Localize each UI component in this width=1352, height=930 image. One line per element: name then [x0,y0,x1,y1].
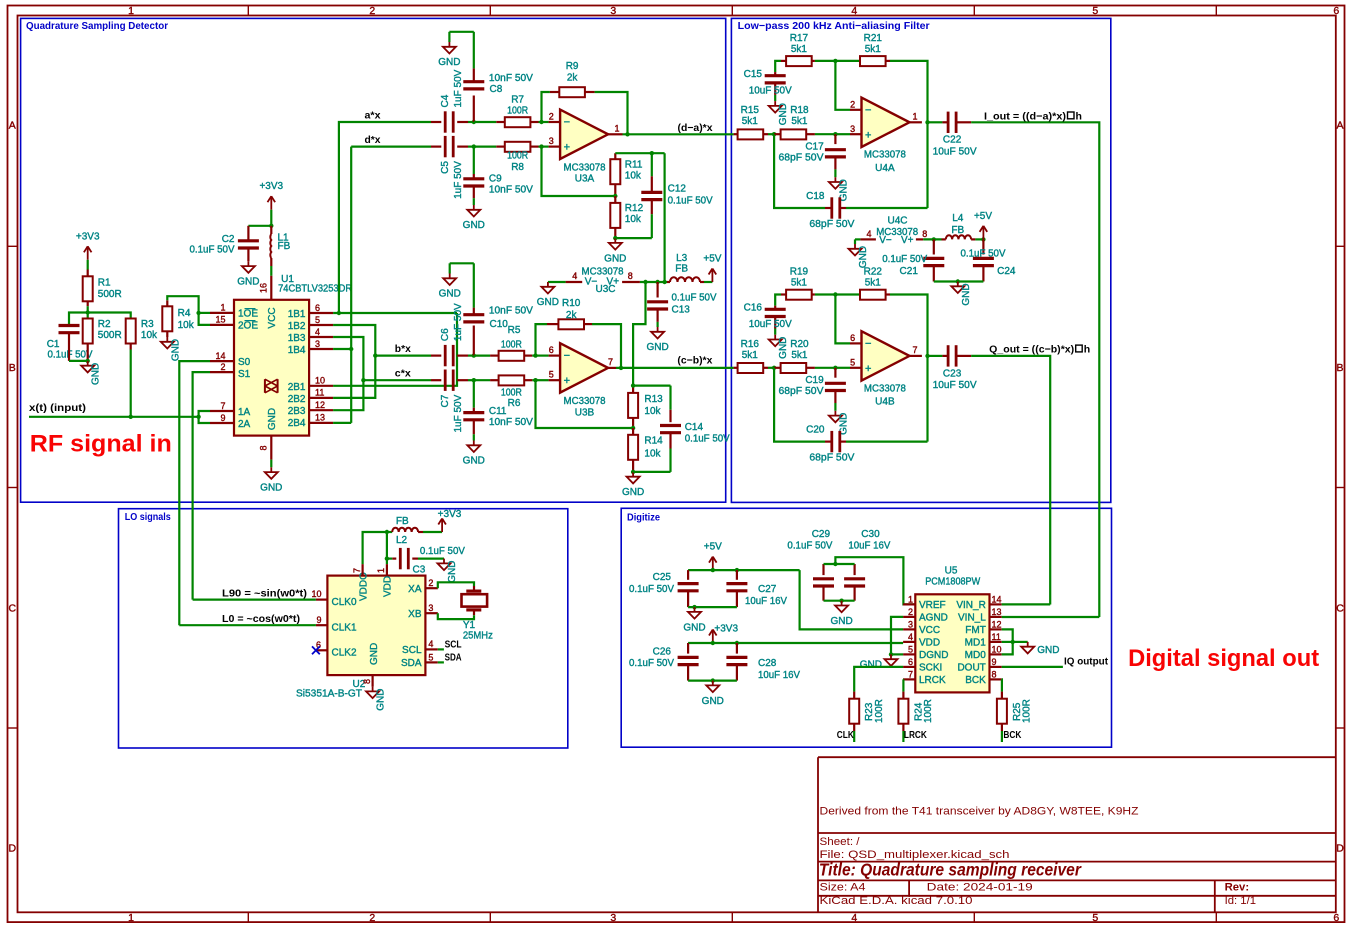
svg-text:C2: C2 [222,234,235,245]
svg-text:1B4: 1B4 [288,345,306,356]
svg-text:GND: GND [860,659,882,670]
svg-text:MC33078: MC33078 [864,150,906,161]
svg-text:10k: 10k [644,406,661,417]
capacitor C1 [59,324,80,327]
wire C2 to gnd [247,248,249,261]
svg-text:4: 4 [851,5,857,17]
svg-text:LO signals: LO signals [125,511,171,523]
wire x(t) to 2A [199,417,210,423]
svg-text:13: 13 [992,607,1002,617]
U1 left pin stubs [210,312,234,314]
svg-text:C14: C14 [685,422,704,433]
wire U3B output to filter [616,367,734,369]
svg-text:R6: R6 [508,398,521,409]
svg-text:CLK: CLK [837,729,854,741]
svg-text:Title: Quadrature sampling rec: Title: Quadrature sampling receiver [819,859,1082,879]
svg-text:V+: V+ [607,277,620,288]
junction C29 gnd [839,599,843,603]
wire C1 to gnd node [68,333,70,361]
pin7 output stub U3B [608,367,616,369]
wire C10 to gnd loop [450,262,474,264]
power +3V3 (L2) [441,519,443,533]
svg-text:1OE: 1OE [238,309,258,320]
svg-text:V−: V− [879,235,892,246]
resistor R15 [734,133,738,135]
svg-text:2B2: 2B2 [288,394,306,405]
svg-text:+3V3: +3V3 [76,231,100,242]
wire XB to crystal [438,613,474,619]
power +3V3 (U1) [270,196,272,210]
svg-text:GND: GND [622,487,644,498]
svg-text:GND: GND [778,337,789,359]
U1 body [234,300,309,436]
wire to opamp pin+ [835,133,850,135]
svg-text:GND: GND [267,408,278,430]
junction R14 gnd [631,470,635,474]
wire C21/C24 gnd rail [934,280,984,282]
junction C25 gnd [692,605,696,609]
svg-text:C: C [9,603,17,615]
power +5V (U4C) [982,226,984,240]
svg-text:C30: C30 [861,529,880,540]
wire +3V3 down to node [270,210,272,226]
svg-text:+5V: +5V [703,254,721,265]
svg-text:GND: GND [260,483,282,494]
svg-text:L3: L3 [676,253,688,264]
svg-text:6: 6 [908,657,913,667]
svg-text:h: h [1084,343,1090,355]
svg-text:10uF 16V: 10uF 16V [758,670,800,681]
svg-text:V+: V+ [901,235,914,246]
wire d*x vertical [350,147,352,423]
svg-text:C11: C11 [489,406,507,417]
svg-text:VCC: VCC [267,307,278,328]
resistor R3 [126,319,136,344]
ground C15 [774,101,776,106]
capacitor C7 [431,379,441,381]
svg-text:GND: GND [439,289,461,300]
svg-text:KiCad E.D.A. kicad 7.0.10: KiCad E.D.A. kicad 7.0.10 [820,895,973,907]
svg-text:R13: R13 [644,394,663,405]
svg-text:100R: 100R [1022,699,1033,723]
svg-text:7: 7 [912,345,917,355]
svg-text:DOUT: DOUT [957,663,985,674]
power +3V3 (Digitize) [712,630,714,644]
wire 1B3 to c*x [333,337,363,410]
svg-text:100R: 100R [507,106,528,117]
wire feedback cap to output [926,356,928,442]
svg-text:(d−a)*x: (d−a)*x [678,122,713,134]
svg-text:1uF 50V: 1uF 50V [453,69,464,107]
junction U3A pin2 [539,120,543,124]
ground MD1 [1027,642,1029,647]
svg-text:R2: R2 [98,319,111,330]
svg-text:74CBTLV3253DR: 74CBTLV3253DR [278,284,352,295]
capacitor C11 [473,380,475,408]
junction c*x [361,378,365,382]
svg-text:13: 13 [315,413,325,423]
junction 1B1/a*x [337,311,341,315]
svg-text:VDD: VDD [383,576,394,597]
svg-text:10k: 10k [644,449,661,460]
svg-text:GND: GND [438,57,460,68]
junction +3V3 arrow [711,641,715,645]
U5 right pin stubs [990,603,1002,605]
svg-text:C22: C22 [943,135,962,146]
wire feedback cap to output [926,122,928,208]
wire 1B4 stub [333,348,351,350]
svg-text:1B2: 1B2 [288,321,306,332]
svg-text:4: 4 [908,632,913,642]
svg-text:C4: C4 [440,94,451,107]
ground C21/C24 [957,282,959,287]
svg-text:−: − [564,350,570,362]
svg-text:R7: R7 [511,95,524,106]
wire BCK to R25 [1001,679,1003,691]
svg-text:100R: 100R [501,339,522,350]
svg-text:U3B: U3B [575,408,595,419]
svg-text:U4C: U4C [887,215,907,226]
junction R15/R18 [772,132,776,136]
svg-text:7: 7 [908,670,913,680]
svg-text:5: 5 [850,357,855,367]
svg-text:100R: 100R [874,699,885,723]
svg-text:+: + [865,363,871,375]
svg-text:10: 10 [315,376,325,386]
junction +5V arrow [711,568,715,572]
ground C25/C27 [694,607,696,612]
wire b*x horizontal [375,355,431,357]
junction U3A pin3 [539,144,543,148]
wire V+ rail [640,281,667,283]
capacitor C6 [431,355,441,357]
svg-text:5k1: 5k1 [865,44,882,55]
svg-text:3: 3 [549,136,554,146]
svg-text:0.1uF 50V: 0.1uF 50V [629,584,674,595]
svg-text:9: 9 [992,657,997,667]
svg-text:R10: R10 [562,298,581,309]
junction C27 top [735,568,739,572]
wire +3V3 rail to VDD [688,642,903,644]
wire R4 to 1OE/2OE [167,296,198,313]
svg-text:12: 12 [992,620,1002,630]
wire R23 to CLK [853,731,855,742]
svg-text:Id: 1/1: Id: 1/1 [1225,895,1256,907]
svg-text:GND: GND [537,297,559,308]
svg-text:5k1: 5k1 [742,116,759,127]
wire V+ rail U4C [923,238,941,240]
svg-text:B: B [1336,362,1343,374]
svg-text:2: 2 [850,99,855,109]
svg-text:5k1: 5k1 [791,350,808,361]
resistor R5 [474,355,490,357]
capacitor C25 [687,570,689,580]
resistor R21 [859,60,861,62]
wire DGND [891,653,903,655]
crystal Y1 [466,589,481,592]
svg-text:L90 = ~sin(w0*t): L90 = ~sin(w0*t) [222,588,307,600]
wire R24 to LRCK label [902,731,904,742]
junction R1/R2/C1/R3 [86,310,90,314]
svg-text:C27: C27 [758,584,777,595]
label x(t) input wire [29,416,199,418]
svg-text:DGND: DGND [919,650,948,661]
no-connect CLK2 [312,646,320,654]
junction C29 rail [833,562,837,566]
ground R4 [166,337,168,342]
wire VREF riser [835,557,915,604]
op-amp U3A [542,121,549,123]
capacitor C22 [928,121,943,123]
inductor L3 FB [667,281,670,283]
resistor R4 [166,300,168,306]
svg-text:6: 6 [1333,5,1339,17]
resistor R8 [474,146,497,148]
wire VDD riser [386,532,388,564]
junction DGND [889,652,893,656]
svg-text:500R: 500R [98,330,122,341]
svg-text:5k1: 5k1 [865,278,882,289]
wire S1 to LO [193,372,210,599]
svg-text:+: + [564,375,570,387]
wire pin- from feedback [835,295,850,344]
junction C24 [981,237,985,241]
capacitor C20 [774,368,825,442]
svg-text:V−: V− [585,277,598,288]
svg-text:4: 4 [428,639,433,649]
wire L1 to VCC pin16 [270,266,272,276]
capacitor C19 [834,368,836,378]
ground C11 [473,441,475,446]
svg-text:C15: C15 [744,69,763,80]
svg-text:a*x: a*x [365,109,381,121]
svg-text:FMT: FMT [965,625,986,636]
junction C21 [932,237,936,241]
svg-text:Si5351A-B-GT: Si5351A-B-GT [296,688,362,699]
svg-text:R17: R17 [790,33,809,44]
svg-text:12: 12 [315,400,325,410]
svg-text:d*x: d*x [365,134,381,146]
junction C28 top [735,641,739,645]
wire MD1 gnd stub [1002,641,1013,643]
svg-text:1: 1 [614,124,619,134]
wire R1 to node [87,306,89,312]
ground U1 [270,460,272,468]
svg-text:C29: C29 [812,529,831,540]
sheet zone ticks and labels [247,6,249,16]
svg-text:2B1: 2B1 [288,382,306,393]
feedback resistor R9 [542,92,550,122]
capacitor C23 [928,355,943,357]
junction C12 top [650,151,654,155]
svg-text:4: 4 [315,327,320,337]
svg-text:3: 3 [908,620,913,630]
svg-text:C24: C24 [997,266,1016,277]
svg-text:I_out = ((d−a)*x): I_out = ((d−a)*x) [984,110,1066,122]
svg-text:GND: GND [463,220,485,231]
wire R13 top to C14 [633,385,670,387]
svg-text:C17: C17 [805,141,824,152]
svg-text:1uF 50V: 1uF 50V [453,394,464,432]
svg-text:7: 7 [352,568,362,573]
ground C10 [449,274,451,279]
svg-text:Low−pass 200 kHz Anti−aliasing: Low−pass 200 kHz Anti−aliasing Filter [738,20,930,32]
svg-text:10uF 50V: 10uF 50V [749,319,792,330]
capacitor C3 [387,557,392,559]
svg-text:2: 2 [369,5,375,17]
wire V- to gnd [548,281,566,283]
ground AGND/DGND [890,654,892,659]
wire SCKI to R23 [854,667,903,692]
junction C13 [655,280,659,284]
svg-text:FB: FB [278,241,291,252]
capacitor C8 [473,96,475,123]
svg-text:4: 4 [866,229,871,239]
wire SDA label [438,661,444,663]
svg-text:b*x: b*x [395,343,411,355]
svg-text:C1: C1 [47,339,60,350]
wire LRCK to R24 [902,678,905,680]
ground C17 [834,177,836,182]
svg-text:C: C [1336,603,1344,615]
svg-text:SCL: SCL [402,645,422,656]
svg-text:D: D [9,843,17,855]
svg-text:GND: GND [376,688,387,710]
capacitor C21 [933,239,935,254]
svg-text:C18: C18 [806,191,825,202]
power +3V3 (R1) [87,246,89,259]
capacitor C4 [431,121,441,123]
svg-text:GND: GND [778,103,789,125]
capacitor C2 [238,239,259,242]
pin 8 V+ stub U4C [916,238,923,240]
svg-text:VDDO: VDDO [358,572,369,601]
svg-text:5: 5 [1092,5,1098,17]
svg-text:3: 3 [850,124,855,134]
svg-text:R3: R3 [141,319,154,330]
resistor R22 [859,293,861,295]
svg-text:SCL: SCL [445,638,462,650]
svg-text:R21: R21 [864,33,883,44]
junction x(t)/1A2A [196,415,200,419]
svg-text:BCK: BCK [965,675,986,686]
svg-text:XA: XA [408,584,422,595]
svg-text:15: 15 [215,315,225,325]
svg-text:0.1uF 50V: 0.1uF 50V [420,546,465,557]
svg-text:10k: 10k [141,330,158,341]
svg-text:R5: R5 [508,325,521,336]
svg-text:0.1uF 50V: 0.1uF 50V [961,249,1006,260]
svg-text:2B4: 2B4 [288,418,306,429]
ground U2 [372,687,374,692]
inductor L4 FB [942,238,946,240]
svg-text:C10: C10 [490,319,509,330]
junction U3B output [619,366,623,370]
power +5V (U3C) [711,269,713,283]
wire c*x horizontal [363,379,431,381]
U5 body [915,594,989,692]
svg-text:2: 2 [369,912,375,924]
wire VDDO riser [363,532,387,564]
wire V- to gnd U4C [855,238,860,240]
svg-text:14: 14 [992,595,1002,605]
svg-text:U4A: U4A [875,163,895,174]
svg-text:6: 6 [549,345,554,355]
svg-text:0.1uF 50V: 0.1uF 50V [629,658,674,669]
svg-text:1uF 50V: 1uF 50V [453,161,464,199]
pin output stub U4A [910,121,922,123]
svg-text:C20: C20 [806,425,825,436]
svg-text:1: 1 [220,303,225,313]
junction C8/a*x [472,120,476,124]
svg-text:MD1: MD1 [965,638,987,649]
svg-text:10uF 16V: 10uF 16V [745,596,787,607]
resistor R20 [774,367,781,369]
junction U3A output [625,132,629,136]
svg-text:11: 11 [315,388,324,398]
svg-text:1: 1 [128,5,134,17]
resistor R24 [902,692,904,699]
svg-text:10nF 50V: 10nF 50V [489,417,533,428]
svg-text:C16: C16 [744,302,763,313]
svg-text:100R: 100R [501,388,522,399]
junction x(t)/R3 [129,415,133,419]
wire Q_out [971,356,1050,605]
svg-text:Y1: Y1 [463,620,476,631]
svg-text:GND: GND [463,456,485,467]
svg-text:2: 2 [428,578,433,588]
U2 left pin stubs [316,598,328,600]
svg-text:B: B [9,362,16,374]
svg-text:+: + [865,130,871,142]
svg-text:3: 3 [610,912,616,924]
junction R17/R21 [833,59,837,63]
resistor R17 [775,61,781,72]
svg-text:C12: C12 [668,184,687,195]
svg-text:7: 7 [608,357,613,367]
wire C8 to gnd loop [449,31,473,33]
svg-text:CLK1: CLK1 [332,622,357,633]
svg-text:Date: 2024-01-19: Date: 2024-01-19 [927,881,1033,893]
wire C26/C28 bottoms [688,679,737,681]
inductor L2 FB [387,531,392,533]
ground C16 [774,335,776,340]
svg-text:−: − [865,338,871,350]
svg-text:GND: GND [447,560,458,582]
svg-text:0.1uF 50V: 0.1uF 50V [668,196,713,207]
capacitor C24 [982,239,984,254]
ground C3 [443,559,445,564]
resistor R1 [87,270,89,277]
capacitor C26 [687,643,689,654]
svg-text:10k: 10k [625,171,642,182]
svg-text:0.1uF 50V: 0.1uF 50V [685,434,730,445]
svg-text:GND: GND [237,277,259,288]
svg-text:R18: R18 [790,105,809,116]
svg-text:2: 2 [220,362,225,372]
svg-text:C13: C13 [672,305,691,316]
resistor R11 [614,153,616,159]
svg-text:+3V3: +3V3 [714,624,738,635]
svg-text:R1: R1 [98,278,111,289]
svg-text:L0 = ~cos(w0*t): L0 = ~cos(w0*t) [222,613,300,625]
resistor R14 [632,428,634,435]
junction b*x [373,353,377,357]
capacitor C14 [669,386,671,410]
U1 mux cross symbol [264,379,266,393]
pin 16 VCC stub [270,276,272,300]
capacitor C9 [473,147,475,174]
